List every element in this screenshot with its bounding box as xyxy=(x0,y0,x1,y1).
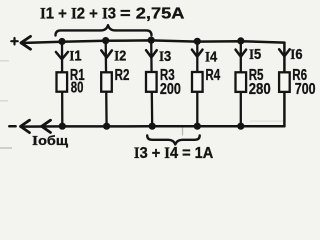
svg-text:200: 200 xyxy=(160,81,181,98)
svg-text:I2: I2 xyxy=(114,47,126,64)
svg-text:280: 280 xyxy=(249,81,271,98)
svg-text:I3: I3 xyxy=(159,48,171,65)
svg-text:Iобщ: Iобщ xyxy=(32,133,69,148)
svg-text:R4: R4 xyxy=(205,67,220,84)
svg-text:= 2,75A: = 2,75A xyxy=(120,5,185,22)
svg-text:I1: I1 xyxy=(69,47,81,64)
svg-text:I1 + I2 + I3: I1 + I2 + I3 xyxy=(40,5,116,22)
svg-text:I3 + I4 = 1A: I3 + I4 = 1A xyxy=(134,145,214,162)
svg-text:I5: I5 xyxy=(249,46,261,63)
svg-text:I4: I4 xyxy=(205,48,218,65)
svg-text:R2: R2 xyxy=(115,67,130,84)
svg-text:80: 80 xyxy=(71,80,84,97)
svg-text:I6: I6 xyxy=(290,46,302,63)
svg-text:700: 700 xyxy=(295,81,316,98)
